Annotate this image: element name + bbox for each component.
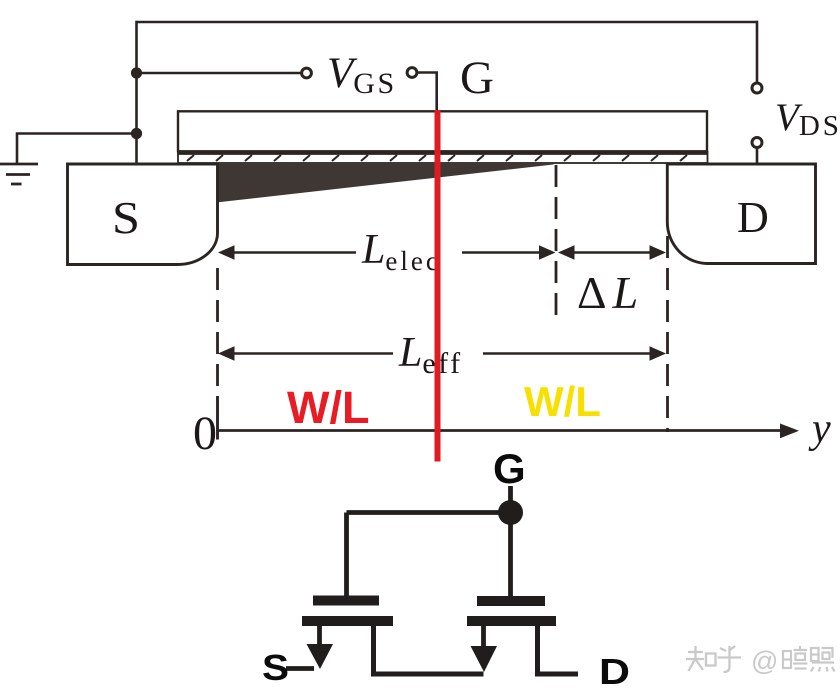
- dashed line at pinch-off point: [555, 165, 558, 318]
- wire M1 drain lead: [374, 625, 484, 674]
- svg-text:D: D: [599, 651, 630, 692]
- axis y: [218, 424, 800, 439]
- gate oxide top border thick line: [178, 152, 707, 155]
- wire VDS terminal to drain contact: [756, 147, 759, 164]
- svg-text:G: G: [460, 52, 494, 104]
- wire top rail from gate-source net to VDS terminal: [137, 21, 758, 24]
- wire M2 gate lead: [508, 513, 513, 597]
- svg-text:0: 0: [193, 407, 217, 460]
- M1 channel bar: [302, 616, 393, 626]
- node junction dot lower: [131, 128, 142, 139]
- wire gate terminal to gate electrode: [417, 73, 437, 112]
- source region S: [68, 164, 218, 265]
- drain region D: [667, 164, 815, 264]
- svg-text:W/L: W/L: [524, 378, 601, 425]
- node gate junction dot: [498, 500, 523, 525]
- gate oxide hatch ticks: [187, 155, 687, 161]
- wire G lead down: [508, 486, 513, 512]
- wire to ground: [17, 134, 137, 164]
- watermark name glyphs: [783, 646, 835, 672]
- dimension Lelec arrow: [218, 245, 556, 259]
- wire left vertical bus down to source contact: [135, 21, 138, 164]
- svg-text:@: @: [751, 646, 778, 676]
- wire M1 gate lead: [344, 513, 349, 597]
- M1 gate bar: [313, 596, 379, 606]
- ground: [0, 164, 38, 184]
- svg-text:y: y: [808, 406, 831, 452]
- dashed line at drain edge: [666, 236, 669, 432]
- wire gate bus horizontal: [347, 510, 511, 515]
- M2 source lead with arrow: [481, 625, 486, 648]
- M2 gate bar: [477, 596, 545, 606]
- wire VDS vertical drop: [756, 21, 759, 83]
- wire M2 drain lead: [538, 625, 579, 674]
- axis tick at origin: [216, 396, 219, 440]
- dashed line at channel left edge: [216, 268, 219, 390]
- terminal VDS upper circle: [752, 83, 762, 93]
- svg-text:W/L: W/L: [287, 382, 369, 433]
- wire VGS horizontal to left terminal: [137, 72, 302, 75]
- terminal VGS right circle: [407, 68, 417, 78]
- svg-text:S: S: [112, 193, 140, 243]
- M2 channel bar: [467, 616, 556, 626]
- M1 source lead with arrow: [317, 625, 322, 647]
- channel inversion-layer wedge: [216, 163, 554, 203]
- terminal VGS left circle: [302, 68, 312, 78]
- svg-text:G: G: [493, 445, 526, 492]
- svg-text:D: D: [737, 193, 769, 242]
- watermark zhihu: [686, 646, 741, 672]
- dimension Leff arrow: [218, 346, 666, 360]
- wire M1 source stub to S: [286, 666, 314, 671]
- node junction dot upper: [131, 67, 142, 78]
- transistor M1 (left): [286, 513, 484, 675]
- gate oxide layer: [178, 152, 708, 163]
- dimension deltaL arrow: [558, 245, 666, 259]
- svg-text:S: S: [262, 647, 289, 688]
- transistor M2 (right): [467, 513, 578, 675]
- gate electrode box: [178, 111, 707, 151]
- terminal VDS lower circle: [752, 138, 762, 148]
- red channel-split line: [435, 110, 441, 462]
